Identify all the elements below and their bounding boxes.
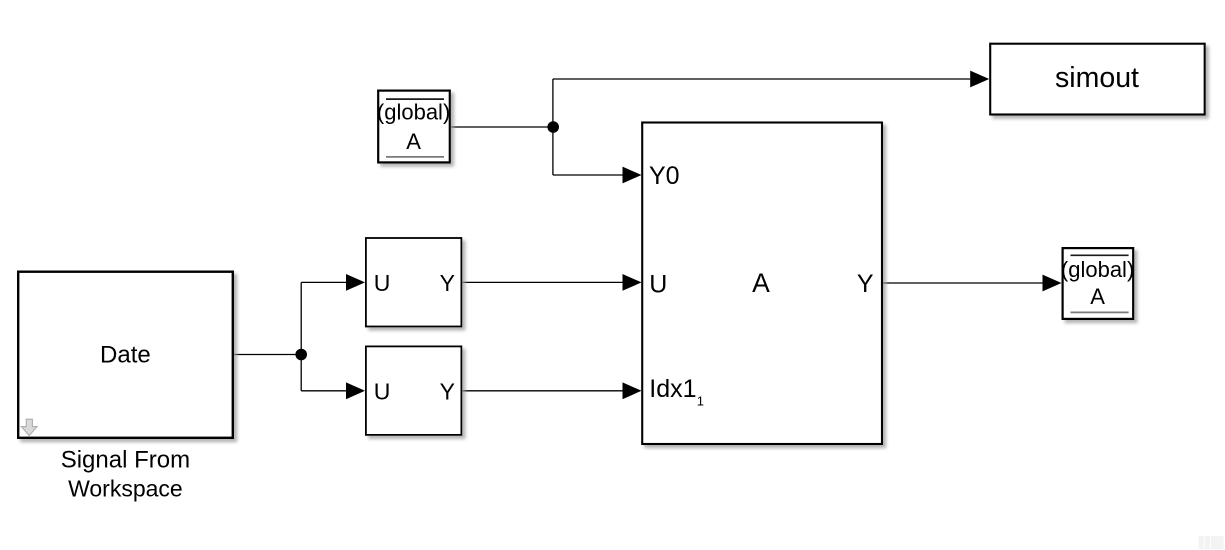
svg-text:(global): (global)	[1061, 257, 1134, 282]
block: big subsystem A	[642, 123, 882, 445]
arrowhead into lower selector	[346, 382, 365, 399]
svg-text:A: A	[1090, 284, 1105, 309]
svg-text:U: U	[374, 378, 391, 404]
wire: upper selector Y to big block U port	[462, 281, 622, 283]
svg-text:Workspace: Workspace	[68, 476, 183, 502]
arrowhead into U port	[623, 274, 642, 291]
arrowhead into Idx1 port	[623, 382, 642, 399]
arrowhead into upper selector	[346, 274, 365, 291]
svg-text:(global): (global)	[377, 100, 450, 125]
wire: left Goto tag to junction	[451, 126, 553, 128]
svg-text:A: A	[406, 129, 421, 154]
svg-text:U: U	[374, 270, 391, 296]
block: Signal From Workspace (Date)	[18, 272, 233, 438]
svg-text:Y: Y	[857, 270, 874, 298]
junction dot at (553,127)	[547, 121, 559, 133]
arrowhead into right Goto tag	[1043, 275, 1062, 292]
svg-text:Idx1: Idx1	[649, 375, 696, 403]
svg-text:1: 1	[697, 393, 704, 408]
svg-text:Date: Date	[100, 342, 151, 369]
wire: to simout	[553, 78, 970, 80]
block: upper selector U Y	[366, 238, 462, 327]
svg-text:Y: Y	[440, 270, 455, 296]
wire: to upper selector input	[301, 281, 346, 283]
icon: gray down-arrow inside Date block	[21, 419, 37, 435]
wire: to Y0 port	[553, 174, 623, 176]
watermark squares bottom right	[1199, 536, 1204, 549]
block: lower selector U Y	[366, 346, 462, 435]
block: left Goto tag (global) A	[377, 91, 450, 163]
wire: vertical riser at x=301	[300, 282, 302, 390]
svg-text:simout: simout	[1055, 62, 1139, 94]
junction dot at (301,354.5)	[295, 349, 307, 361]
svg-text:Y: Y	[440, 378, 455, 404]
wire: to lower selector input	[301, 390, 346, 392]
svg-text:A: A	[752, 268, 770, 298]
arrowhead into Y0 port	[623, 167, 642, 184]
svg-text:Y0: Y0	[649, 162, 680, 190]
svg-text:U: U	[649, 271, 667, 299]
wire: Date block to junction	[234, 354, 301, 356]
wire: big block Y to right Goto tag	[883, 282, 1043, 284]
wire: vertical riser at x=553	[552, 79, 554, 175]
svg-text:Signal From: Signal From	[61, 447, 190, 474]
wire: lower selector Y to big block Idx1 port	[462, 390, 622, 392]
block: simout (To Workspace)	[990, 44, 1204, 115]
arrowhead into simout	[970, 71, 989, 88]
block: right From tag (global) A	[1061, 248, 1134, 319]
